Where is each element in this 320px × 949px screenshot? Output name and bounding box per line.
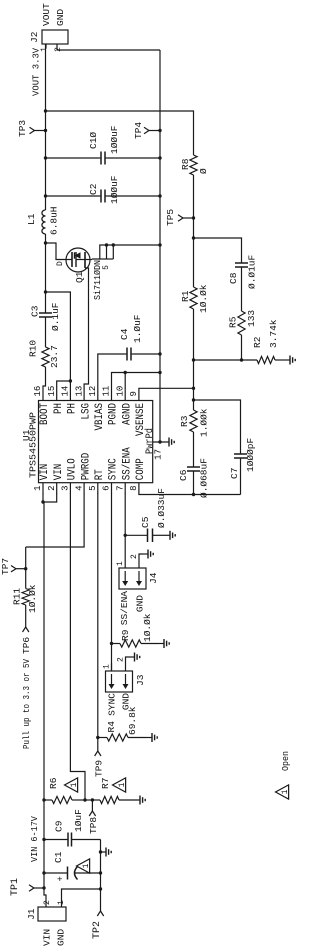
svg-text:1: 1 — [40, 47, 49, 52]
feedforward loop wire — [194, 238, 242, 253]
U1 pin 7 SS/ENA — [115, 447, 133, 494]
svg-text:GND: GND — [121, 693, 132, 710]
connector J2 (VOUT output) — [29, 30, 68, 44]
Q1 source pin stubs — [100, 245, 114, 270]
svg-text:4: 4 — [74, 486, 84, 491]
svg-text:VOUT 3.3V: VOUT 3.3V — [31, 48, 42, 96]
svg-text:TP7: TP7 — [0, 558, 11, 575]
svg-text:C7: C7 — [229, 468, 240, 479]
wire Q1 source to GND rail — [92, 245, 160, 259]
open marker legend triangle — [276, 785, 289, 799]
svg-text:SYNC: SYNC — [107, 693, 118, 716]
svg-text:C3: C3 — [30, 305, 41, 317]
svg-text:1ØØuF: 1ØØuF — [109, 125, 120, 154]
svg-text:PWRGD: PWRGD — [80, 452, 92, 480]
wire J1 pin2 to VIN rail — [44, 888, 46, 907]
svg-text:UVLO: UVLO — [67, 458, 79, 480]
svg-text:1ØØuF: 1ØØuF — [109, 175, 120, 204]
wire R8 to VOUT rail drop — [46, 111, 194, 155]
wire R11 to corner — [25, 547, 27, 589]
wire VIN pins 1-2 join — [43, 493, 57, 502]
wire TP6 to R11 — [25, 605, 27, 622]
connector J1 (VIN input) — [26, 907, 66, 921]
U1 pin 14 PH — [61, 386, 79, 414]
svg-text:TP9: TP9 — [94, 760, 105, 777]
svg-text:1: 1 — [33, 486, 43, 491]
node gnd stem — [99, 850, 102, 853]
resistor R2 3.74k chain — [194, 319, 285, 363]
node TP8 tap — [91, 798, 94, 801]
svg-text:R5: R5 — [228, 316, 239, 328]
svg-text:VBIAS: VBIAS — [94, 403, 106, 431]
svg-text:GND: GND — [55, 9, 66, 26]
capacitor C9 10uF — [44, 809, 101, 847]
node R2 branch — [192, 358, 195, 361]
svg-text:C1Ø: C1Ø — [88, 132, 99, 149]
test point TP9 — [94, 738, 105, 778]
svg-text:1: 1 — [281, 789, 290, 794]
node C8 loop bottom — [240, 358, 243, 361]
svg-text:13: 13 — [74, 386, 84, 397]
node C2 top — [44, 194, 47, 197]
wire UVLO pin3 to divider — [70, 493, 85, 800]
svg-text:L1: L1 — [26, 213, 37, 225]
svg-text:2: 2 — [130, 554, 139, 559]
U1 pin 8 COMP — [129, 458, 147, 494]
U1 pin 1 VIN — [33, 464, 51, 494]
svg-text:AGND: AGND — [121, 403, 133, 425]
svg-text:+: + — [56, 876, 66, 881]
svg-text:1: 1 — [82, 863, 91, 868]
svg-text:15: 15 — [47, 386, 57, 397]
resistor R7 (open) — [100, 778, 119, 804]
svg-text:R3: R3 — [179, 415, 190, 427]
svg-text:1Ø.Øk: 1Ø.Øk — [27, 584, 38, 613]
node AGND join — [124, 371, 127, 374]
test point TP5 — [165, 209, 194, 226]
ground J3 pin2 — [130, 656, 135, 658]
svg-text:1: 1 — [103, 664, 112, 669]
resistor R6 (open) — [44, 777, 85, 803]
node C9 top — [42, 838, 45, 841]
connector J4 SS/ENA jumper — [119, 568, 159, 589]
inductor L1 6.8uH — [26, 206, 60, 235]
node PH pins join — [69, 379, 72, 382]
svg-text:R9: R9 — [120, 629, 131, 641]
resistor R11 10.0k — [12, 584, 39, 613]
svg-text:R7: R7 — [100, 778, 111, 789]
ground R7 — [119, 799, 140, 801]
test point TP1 — [10, 878, 44, 896]
svg-text:1Ø.Øk: 1Ø.Øk — [142, 613, 153, 642]
svg-text:1ØuF: 1ØuF — [73, 809, 84, 832]
U1 pin 16 BOOT — [33, 386, 51, 425]
U1 pin 13 LSG — [74, 386, 92, 420]
ground J4 pin2 — [143, 553, 148, 555]
node feedback drop on VOUT rail — [44, 109, 47, 112]
wire pull-up to PWRGD pin 4 — [26, 493, 84, 547]
J3 pin1 wire — [111, 663, 113, 671]
ground C5 — [156, 534, 170, 536]
capacitor C3 0.1uF — [30, 302, 62, 331]
open marker for R6 — [65, 778, 78, 792]
node BOOT-PH junction — [44, 290, 47, 293]
IC U1 TPS54550PWP — [21, 401, 153, 483]
svg-text:2: 2 — [54, 47, 63, 52]
svg-text:Ø: Ø — [198, 168, 209, 174]
svg-text:Pull up to 3.3 or 5V: Pull up to 3.3 or 5V — [22, 659, 32, 749]
wire PH pins to PH node — [69, 381, 71, 389]
svg-text:17: 17 — [154, 449, 164, 460]
wire COMP pin8 down — [139, 493, 241, 495]
wire PH rail to Q1 drain — [46, 243, 65, 260]
test point TP2 — [92, 905, 104, 939]
svg-text:TP2: TP2 — [92, 921, 103, 939]
wire R6-R7 link — [85, 799, 100, 801]
test point TP8 — [88, 800, 99, 834]
node C5 tap — [124, 534, 127, 537]
node TP7 tap — [24, 567, 27, 570]
connector J3 SYNC jumper — [106, 671, 147, 692]
node Q1 source on GND rail — [158, 243, 161, 246]
svg-text:VIN: VIN — [53, 464, 65, 481]
svg-text:2: 2 — [43, 900, 52, 905]
svg-text:VOUT: VOUT — [41, 3, 52, 26]
node C1 bottom — [99, 871, 102, 874]
node C8 loop tap — [192, 236, 195, 239]
node source stub 1 — [105, 243, 108, 246]
svg-text:1ØØØpF: 1ØØØpF — [245, 437, 256, 472]
svg-text:C1: C1 — [53, 851, 64, 863]
svg-text:1: 1 — [70, 782, 79, 787]
U1 pin 3 UVLO — [61, 458, 79, 494]
node C4 on GND rail — [158, 352, 161, 355]
svg-text:TP6: TP6 — [21, 637, 32, 654]
svg-text:3: 3 — [61, 486, 71, 491]
node Q1 drain branch — [44, 241, 47, 244]
wire PGND pin11 + AGND pin10 to GND rail — [112, 373, 161, 390]
wire BOOT pin16 — [43, 367, 46, 389]
resistor R8 0 — [180, 155, 209, 175]
node PwrPd on GND rail — [158, 440, 161, 443]
svg-text:23.7: 23.7 — [49, 345, 60, 368]
svg-text:14: 14 — [61, 386, 71, 397]
node R4 tap — [96, 736, 99, 739]
svg-text:6.8uH: 6.8uH — [49, 206, 60, 235]
svg-text:C6: C6 — [178, 469, 189, 481]
wire to R8 — [193, 175, 195, 238]
svg-text:8: 8 — [129, 486, 139, 491]
node source stub 2 — [112, 243, 115, 246]
svg-text:RT: RT — [94, 469, 106, 480]
open marker for C1 — [77, 859, 90, 873]
node UVLO tap — [83, 798, 86, 801]
svg-text:SS/ENA: SS/ENA — [121, 447, 133, 480]
svg-text:16: 16 — [33, 386, 43, 397]
capacitor C7 1000pF loop — [194, 400, 257, 495]
svg-text:1.ØØk: 1.ØØk — [199, 408, 210, 437]
node C10 bottom — [158, 156, 161, 159]
capacitor C1 (polarized, open) — [44, 851, 101, 881]
node R9 tap — [110, 642, 113, 645]
svg-text:J1: J1 — [26, 908, 37, 920]
node C2 bottom — [158, 194, 161, 197]
ground input bus — [101, 851, 107, 853]
wire PH pins 14-15 join — [57, 381, 71, 389]
svg-text:R2: R2 — [252, 336, 263, 348]
wire input GND bus — [100, 840, 102, 906]
svg-text:SYNC: SYNC — [108, 458, 120, 480]
U1 pin 10 AGND — [115, 386, 133, 425]
svg-text:1.ØuF: 1.ØuF — [132, 314, 143, 343]
node C7 loop right — [192, 398, 195, 401]
svg-text:6: 6 — [102, 486, 112, 491]
resistor R4 69.8k — [98, 706, 146, 741]
J3 pin2 wire to gnd — [126, 657, 130, 671]
svg-text:Ø.Ø33uF: Ø.Ø33uF — [156, 488, 167, 528]
svg-text:LSG: LSG — [80, 403, 92, 420]
svg-text:133: 133 — [246, 310, 257, 327]
node TP5 — [192, 216, 195, 219]
svg-text:1: 1 — [116, 561, 125, 566]
svg-text:TP4: TP4 — [133, 122, 144, 139]
svg-text:R1: R1 — [180, 290, 191, 302]
resistor R5 133 — [228, 277, 258, 360]
svg-text:R10: R10 — [28, 340, 39, 357]
svg-text:R4: R4 — [106, 721, 117, 733]
capacitor C8 0.01uF — [228, 253, 258, 289]
wire GND rail — [159, 50, 161, 442]
U1 pin 12 VBIAS — [88, 386, 106, 431]
svg-text:PH: PH — [53, 403, 65, 414]
svg-text:GND: GND — [56, 929, 67, 946]
svg-text:PGND: PGND — [108, 403, 120, 425]
svg-text:12: 12 — [88, 386, 98, 397]
svg-text:Ø.1uF: Ø.1uF — [50, 302, 61, 331]
ground PwrPd — [168, 441, 170, 443]
svg-text:5: 5 — [102, 265, 111, 270]
node J1 GND junction — [99, 887, 102, 890]
U1 pin 11 PGND — [102, 386, 120, 425]
svg-text:TP3: TP3 — [17, 120, 28, 137]
svg-text:3.74k: 3.74k — [268, 319, 279, 348]
svg-text:GND: GND — [135, 595, 146, 612]
svg-text:TP8: TP8 — [88, 817, 99, 834]
wire VOUT rail — [45, 44, 47, 210]
svg-text:VIN: VIN — [42, 929, 53, 946]
svg-text:C5: C5 — [140, 516, 151, 528]
wire RT pin5 — [97, 493, 99, 738]
capacitor C5 0.033uF — [125, 488, 167, 542]
svg-text:5: 5 — [88, 486, 98, 491]
wire LSG pin13 to Q1 gate — [84, 268, 88, 389]
ground R9 — [158, 643, 164, 645]
capacitor C6 0.068uF — [178, 458, 210, 498]
transistor Q1 Si7110DN — [64, 248, 103, 300]
svg-text:TPS54550PWP: TPS54550PWP — [28, 412, 39, 478]
svg-text:BOOT: BOOT — [39, 403, 51, 425]
node AGND on GND rail — [158, 371, 161, 374]
node TP1 on VIN rail — [42, 886, 45, 889]
svg-text:2: 2 — [47, 486, 57, 491]
svg-text:R6: R6 — [48, 777, 59, 789]
ground R4 — [146, 737, 152, 739]
resistor R3 1.00k — [179, 388, 210, 459]
svg-text:10: 10 — [115, 386, 125, 397]
wire J1 pin1 to GND bus — [62, 889, 101, 907]
svg-text:C2: C2 — [88, 183, 99, 195]
node VIN pins join — [41, 500, 44, 503]
svg-text:R8: R8 — [180, 158, 191, 170]
svg-text:Q1: Q1 — [74, 271, 85, 283]
capacitor C4 1.0uF — [119, 314, 160, 360]
U1 pin 4 PWRGD — [74, 452, 92, 493]
svg-text:9: 9 — [129, 391, 139, 396]
U1 pin 15 PH — [47, 386, 65, 414]
svg-text:C4: C4 — [119, 328, 130, 340]
test point TP4 — [133, 122, 160, 139]
wire J2 pin1 to VOUT rail — [45, 44, 48, 48]
U1 pin 2 VIN — [47, 464, 65, 494]
svg-text:J2: J2 — [29, 31, 40, 43]
open marker for R7 — [113, 778, 126, 792]
test point TP3 — [17, 120, 46, 137]
svg-text:PH: PH — [67, 403, 79, 414]
svg-text:R11: R11 — [12, 588, 23, 605]
svg-text:VIN: VIN — [39, 464, 51, 481]
wire VIN rail — [43, 502, 45, 888]
resistor R10 23.7 — [28, 340, 61, 368]
U1 pin 6 SYNC — [102, 458, 120, 494]
svg-text:TP1: TP1 — [10, 878, 21, 896]
svg-text:TP5: TP5 — [165, 209, 176, 226]
svg-text:2: 2 — [117, 657, 126, 662]
svg-text:7: 7 — [115, 486, 125, 491]
node R6 top on VIN rail — [42, 798, 45, 801]
node TP3 on VOUT rail — [44, 129, 47, 132]
node C10 top — [44, 156, 47, 159]
wire feedback line — [193, 309, 195, 388]
resistor R9 10.0k — [112, 613, 159, 647]
ground R2 — [284, 359, 290, 361]
test point TP6 — [21, 622, 32, 654]
J4 pin2 wire to gnd — [139, 554, 143, 568]
wire PH node to L1 — [45, 234, 47, 292]
node C1 top — [42, 871, 45, 874]
wire C3 to PH node — [45, 292, 47, 306]
svg-text:1Ø.Øk: 1Ø.Øk — [198, 284, 209, 313]
wire VSENSE pin9 to feedback — [139, 387, 194, 390]
svg-text:SS/ENA: SS/ENA — [119, 591, 130, 626]
wire J2 pin2 to GND rail — [57, 44, 160, 50]
U1 pin 9 VSENSE — [129, 389, 147, 436]
wire VBIAS pin12 to C4 — [98, 354, 124, 389]
svg-text:Ø.Ø1uF: Ø.Ø1uF — [247, 254, 258, 289]
svg-text:J4: J4 — [148, 572, 159, 584]
svg-text:Ø.Ø68uF: Ø.Ø68uF — [199, 458, 210, 498]
wire SYNC pin6 — [111, 493, 113, 671]
svg-text:D: D — [56, 261, 65, 266]
capacitor C2 100uF — [46, 175, 161, 204]
resistor R1 10.0k — [180, 238, 209, 313]
wire SS/ENA pin7 — [124, 493, 126, 568]
node TP4 on GND rail — [158, 129, 161, 132]
svg-text:Open: Open — [280, 751, 291, 771]
svg-text:J3: J3 — [135, 674, 146, 686]
U1 pin 17 PwrPd — [144, 428, 169, 460]
svg-text:1: 1 — [118, 782, 127, 787]
svg-text:COMP: COMP — [135, 458, 147, 480]
capacitor C10 100uF — [46, 125, 161, 164]
node COMP to comp line — [192, 493, 195, 496]
U1 pin 5 RT — [88, 469, 106, 494]
node VSENSE junction — [192, 387, 195, 390]
svg-text:11: 11 — [102, 386, 112, 397]
svg-text:C9: C9 — [54, 820, 65, 832]
wire R10 to C3 — [45, 324, 47, 347]
test point TP7 — [0, 558, 26, 575]
svg-text:C8: C8 — [228, 272, 239, 284]
svg-text:VIN 6-17V: VIN 6-17V — [30, 816, 40, 862]
